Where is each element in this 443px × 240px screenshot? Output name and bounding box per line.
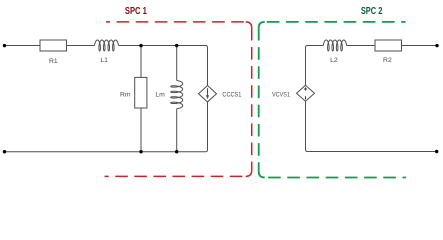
node dot bottom-right — [435, 150, 438, 153]
svg-text:L2: L2 — [330, 57, 338, 64]
svg-text:Rm: Rm — [120, 91, 131, 98]
svg-text:SPC 1: SPC 1 — [125, 6, 147, 17]
wire L1 to corner — [119, 46, 208, 48]
wire CCCS1 to bottom corner — [206, 102, 208, 152]
svg-text:SPC 2: SPC 2 — [361, 6, 383, 17]
resistor R2 — [375, 40, 402, 51]
svg-text:L1: L1 — [100, 57, 108, 64]
node junction Lm bottom — [175, 150, 178, 153]
wire top junction to Lm — [176, 46, 178, 81]
wire R2 to right end — [402, 45, 438, 47]
node junction Lm top — [175, 44, 178, 47]
wire top junction to Rm — [140, 46, 142, 78]
CCCS1 diamond — [199, 86, 217, 102]
wire VCVS1 to bottom corner — [306, 101, 437, 151]
wire Rm to bottom — [140, 108, 142, 152]
VCVS1 plus — [304, 87, 307, 90]
VCVS1 minus (rotated) — [305, 96, 307, 99]
CCCS1 arrow — [207, 88, 209, 96]
inductor L2 — [323, 40, 346, 51]
wire VCVS1 top corner — [306, 46, 324, 86]
wire R1 to L1 — [67, 45, 95, 47]
node junction Rm bottom — [139, 150, 142, 153]
svg-text:R1: R1 — [49, 58, 58, 65]
wire corner down to CCCS1 — [207, 48, 209, 86]
node dot bottom-left — [3, 150, 6, 153]
SPC 2 boundary (green dashed) — [259, 22, 406, 178]
svg-text:VCVS1: VCVS1 — [272, 92, 290, 99]
wire L2 to R2 — [347, 45, 375, 47]
svg-text:R2: R2 — [383, 57, 392, 64]
wire Lm to bottom — [176, 109, 178, 152]
inductor L1 — [95, 40, 119, 51]
resistor Rm — [135, 77, 147, 108]
VCVS1 diamond — [297, 85, 315, 101]
node dot top-left — [3, 44, 6, 47]
resistor R1 — [40, 40, 67, 51]
wire bottom-left — [5, 151, 206, 153]
node dot top-right — [435, 44, 438, 47]
svg-text:CCCS1: CCCS1 — [222, 92, 241, 99]
SPC 1 boundary (red dashed) — [105, 22, 252, 177]
inductor Lm — [171, 81, 183, 109]
wire top-left lead to R1 — [5, 45, 41, 47]
node junction Rm top — [139, 44, 142, 47]
svg-text:Lm: Lm — [155, 91, 165, 98]
